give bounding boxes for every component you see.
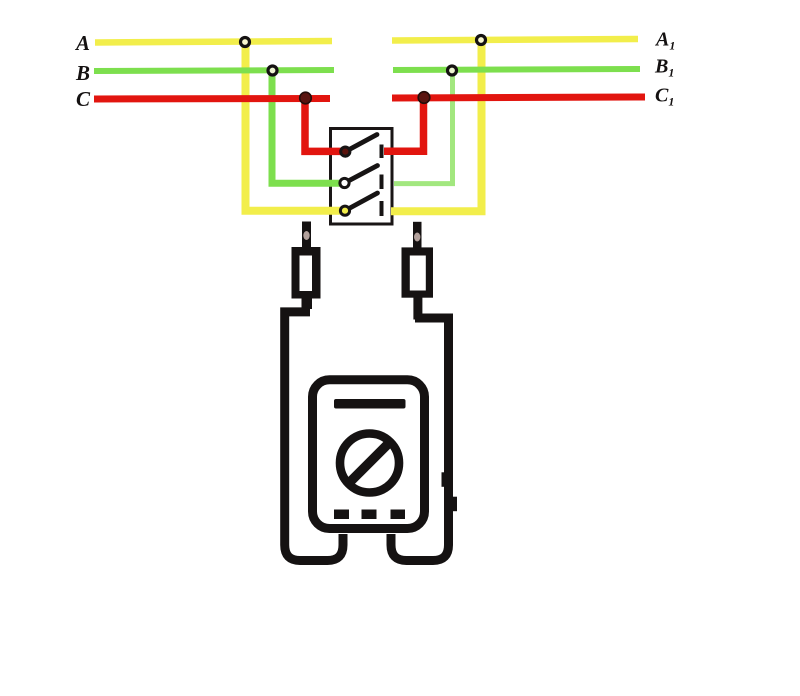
- svg-text:A: A: [74, 31, 90, 55]
- wire phase C left (red): [94, 95, 330, 103]
- wire green drop left (B to switch pole 2): [272, 71, 344, 184]
- probe lead left lower stem: [302, 298, 313, 309]
- display window bar: [334, 399, 406, 409]
- wire red drop right (C1 to switch contact 1): [384, 98, 424, 152]
- switch pole 1 terminal: [341, 147, 350, 156]
- switch pole 1 lever: [345, 135, 377, 152]
- switch contact 1 bar: [380, 145, 384, 159]
- wire yellow drop right (A1 to switch contact 3): [391, 40, 482, 211]
- rotary dial pointer slash: [350, 443, 389, 482]
- svg-text:B: B: [75, 61, 90, 85]
- multimeter body left outline with left foot: [285, 312, 343, 561]
- wire phase B right (green): [393, 69, 640, 70]
- wire yellow drop left (A to switch pole 3): [246, 42, 346, 211]
- switch linkage dash upper: [380, 175, 384, 190]
- switch box S1 outline: [331, 129, 393, 225]
- switch pole 3 terminal: [340, 206, 349, 215]
- probe lead right stem highlight: [414, 233, 420, 242]
- panel tick dash 2: [362, 510, 377, 520]
- switch pole 3 lever: [345, 193, 378, 211]
- probe lead left stem highlight: [303, 231, 309, 240]
- panel tick dash 1: [334, 510, 349, 520]
- multimeter side button lower: [453, 497, 458, 512]
- probe lead right upper stem: [413, 222, 422, 249]
- terminal on phase B left: [268, 66, 277, 75]
- wire phase C right (red): [392, 97, 645, 98]
- wire phase B left (green): [94, 70, 334, 71]
- wire phase A right (yellow): [392, 39, 638, 41]
- switch pole 2 lever: [345, 166, 378, 184]
- probe lead left upper stem: [302, 222, 311, 249]
- terminal on phase A right: [477, 36, 486, 45]
- junction on phase C right: [418, 92, 430, 104]
- rotary dial ring: [340, 434, 399, 493]
- junction on phase C left: [300, 92, 312, 104]
- multimeter body right outline with right foot: [391, 318, 449, 561]
- probe lead right lower stem: [413, 298, 422, 320]
- multimeter side button upper: [442, 472, 448, 487]
- terminal on phase A left: [241, 38, 250, 47]
- switch linkage dash lower: [380, 201, 384, 216]
- wire red drop left (C to switch pole 1): [305, 98, 345, 151]
- wire green drop right (B1 to switch contact 2): [394, 71, 453, 184]
- switch pole 2 terminal: [340, 178, 349, 187]
- svg-text:C: C: [76, 87, 91, 111]
- panel tick dash 3: [391, 510, 406, 520]
- fuse body right: [402, 247, 434, 297]
- fuse body left: [292, 247, 321, 299]
- wire phase A left (yellow): [95, 41, 332, 43]
- terminal on phase B right: [448, 66, 457, 75]
- multimeter front panel: [313, 380, 425, 529]
